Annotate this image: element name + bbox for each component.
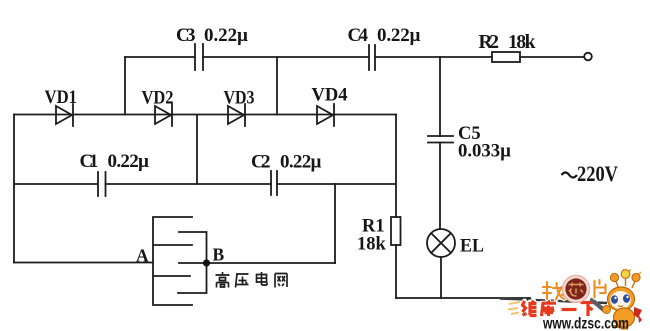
watermark char pian <box>595 280 606 298</box>
wire left rail <box>13 115 15 263</box>
capacitor C1 <box>98 172 106 196</box>
svg-text:VD3: VD3 <box>224 88 255 109</box>
wire top rail left segment <box>125 56 195 58</box>
wire capacitor row middle <box>106 183 272 185</box>
svg-text:A: A <box>136 246 149 266</box>
diode VD2 <box>155 104 172 126</box>
capacitor C3 <box>195 44 203 70</box>
svg-text:18k: 18k <box>357 235 387 255</box>
svg-text:0.033µ: 0.033µ <box>458 142 511 162</box>
wire capacitor row left <box>14 183 98 185</box>
resistor R1 <box>391 217 401 245</box>
wire bottom-left node A <box>14 262 153 264</box>
wire C5 branch upper <box>439 57 441 136</box>
svg-text:R218k: R218k <box>479 32 536 53</box>
watermark glow streaks <box>508 302 520 314</box>
watermark magnifier stamp <box>562 275 589 302</box>
svg-text:www.dzsc.com: www.dzsc.com <box>542 316 629 331</box>
capacitor C2 <box>271 171 277 195</box>
svg-text:EL: EL <box>460 237 484 257</box>
watermark mascot <box>603 269 643 328</box>
electrode grid right comb <box>178 232 207 293</box>
svg-text:VD1: VD1 <box>45 87 78 108</box>
wire diode row <box>14 114 396 116</box>
node B junction dot <box>203 259 210 266</box>
svg-text:C10.22µ: C10.22µ <box>80 151 150 172</box>
wire vertical mid drop VD2-VD3 <box>196 115 198 185</box>
wire bottom rail <box>396 297 530 299</box>
wire vertical C3-right drop <box>276 57 278 115</box>
svg-text:220V: 220V <box>577 161 618 186</box>
wire R2 to terminal <box>520 56 584 58</box>
wire top rail C3 to C4 <box>203 56 369 58</box>
wire lamp to bottom <box>440 257 442 298</box>
diode VD3 <box>228 104 245 126</box>
watermark magnifier handle <box>592 300 605 311</box>
wire C5 to lamp <box>439 143 441 230</box>
svg-text:C30.22µ: C30.22µ <box>176 25 248 46</box>
watermark pencil line <box>500 299 607 304</box>
lamp EL <box>427 229 455 257</box>
diode VD1 <box>56 104 73 126</box>
capacitor C4 <box>369 45 375 70</box>
watermark char zhao <box>543 282 566 300</box>
diode VD4 <box>317 104 334 126</box>
resistor R2 <box>492 52 520 62</box>
wire right vertical diode row to R1 <box>395 115 397 218</box>
svg-text:R1: R1 <box>362 217 385 237</box>
label high-voltage-grid chinese text <box>216 272 288 288</box>
label ~220V supply <box>562 161 619 186</box>
electrode grid left comb <box>153 217 192 305</box>
watermark red text weikuyixia <box>523 300 596 316</box>
svg-text:B: B <box>213 245 225 265</box>
wire capacitor row right <box>277 183 396 185</box>
svg-text:C20.22µ: C20.22µ <box>251 152 322 173</box>
svg-text:VD2: VD2 <box>142 88 174 109</box>
terminal top right <box>584 53 592 61</box>
svg-text:C40.22µ: C40.22µ <box>348 25 421 46</box>
wire vertical B riser <box>334 184 336 263</box>
capacitor C5 <box>428 136 453 143</box>
wire vertical top-left drop <box>124 57 126 115</box>
wire R1 to bottom <box>395 245 397 298</box>
svg-text:VD4: VD4 <box>312 85 348 106</box>
wire top rail C4 to R2 <box>375 56 492 58</box>
wire node B to right <box>207 262 336 264</box>
